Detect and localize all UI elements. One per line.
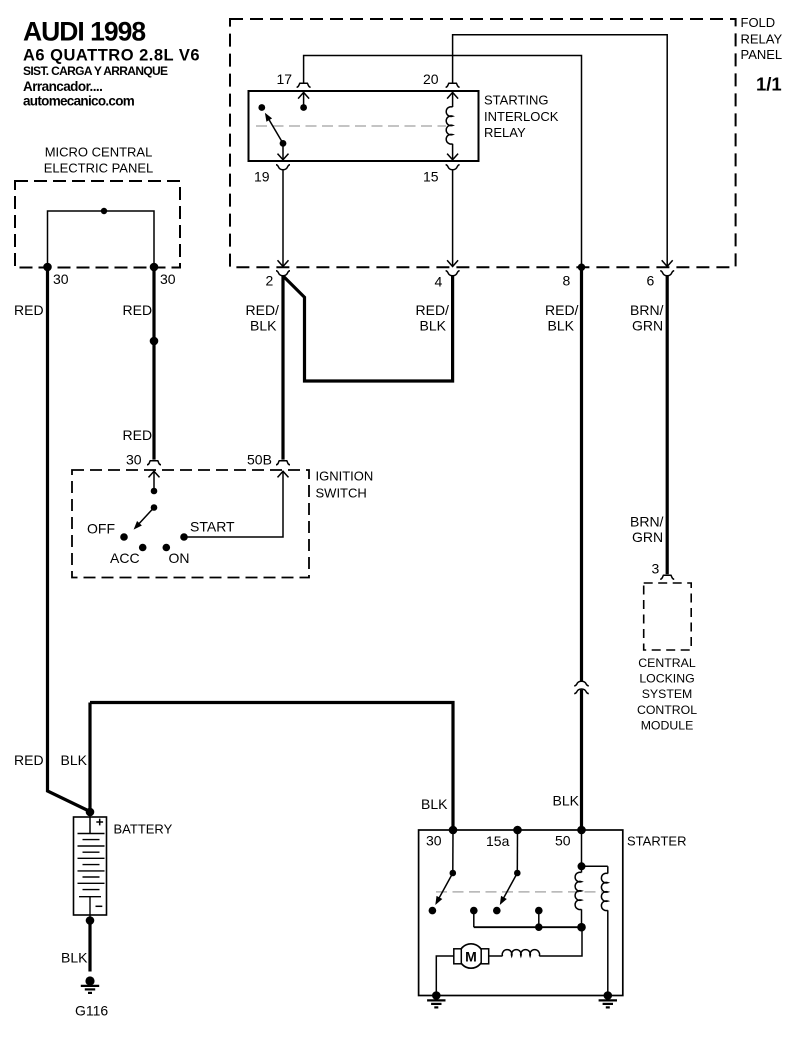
svg-text:G116: G116 xyxy=(75,1003,108,1019)
svg-text:A6 QUATTRO 2.8L V6: A6 QUATTRO 2.8L V6 xyxy=(23,47,200,65)
svg-text:ON: ON xyxy=(169,550,190,566)
svg-text:3: 3 xyxy=(652,561,660,577)
svg-text:50: 50 xyxy=(555,833,571,849)
svg-text:LOCKING: LOCKING xyxy=(639,672,694,686)
svg-text:IGNITION: IGNITION xyxy=(316,469,374,484)
svg-text:ELECTRIC PANEL: ELECTRIC PANEL xyxy=(44,161,154,176)
svg-text:BLK: BLK xyxy=(553,793,580,809)
svg-text:M: M xyxy=(465,948,477,964)
svg-text:Arrancador....: Arrancador.... xyxy=(23,79,102,94)
svg-text:8: 8 xyxy=(563,273,571,289)
svg-text:RED: RED xyxy=(14,752,44,768)
svg-text:FOLD: FOLD xyxy=(741,15,776,30)
svg-text:15: 15 xyxy=(423,169,439,185)
svg-text:BLK: BLK xyxy=(420,318,447,334)
svg-text:15a: 15a xyxy=(486,833,510,849)
svg-text:STARTER: STARTER xyxy=(627,834,686,849)
svg-text:17: 17 xyxy=(277,71,293,87)
svg-text:MODULE: MODULE xyxy=(641,718,694,732)
svg-text:SYSTEM: SYSTEM xyxy=(642,687,693,701)
svg-text:RED: RED xyxy=(123,302,153,318)
svg-text:2: 2 xyxy=(266,273,274,289)
svg-text:GRN: GRN xyxy=(632,318,663,334)
svg-text:RED: RED xyxy=(123,427,153,443)
svg-text:SWITCH: SWITCH xyxy=(316,486,367,501)
svg-text:automecanico.com: automecanico.com xyxy=(23,94,135,109)
svg-text:START: START xyxy=(190,519,235,535)
svg-text:AUDI 1998: AUDI 1998 xyxy=(23,17,145,47)
svg-text:SIST. CARGA Y ARRANQUE: SIST. CARGA Y ARRANQUE xyxy=(23,64,168,78)
svg-text:RED: RED xyxy=(14,302,44,318)
svg-text:RED/: RED/ xyxy=(246,302,280,318)
svg-text:RED/: RED/ xyxy=(545,302,579,318)
svg-text:PANEL: PANEL xyxy=(741,47,783,62)
svg-text:STARTING: STARTING xyxy=(484,93,549,108)
svg-text:BLK: BLK xyxy=(421,796,448,812)
svg-text:OFF: OFF xyxy=(87,521,115,537)
svg-text:BLK: BLK xyxy=(548,318,575,334)
svg-text:INTERLOCK: INTERLOCK xyxy=(484,109,559,124)
svg-text:BATTERY: BATTERY xyxy=(114,822,173,837)
svg-text:CENTRAL: CENTRAL xyxy=(638,656,696,670)
svg-text:BLK: BLK xyxy=(61,752,88,768)
svg-text:30: 30 xyxy=(426,833,442,849)
svg-text:RELAY: RELAY xyxy=(484,125,526,140)
svg-text:MICRO CENTRAL: MICRO CENTRAL xyxy=(45,145,153,160)
svg-text:BRN/: BRN/ xyxy=(630,514,664,530)
svg-text:30: 30 xyxy=(160,271,176,287)
svg-text:1/1: 1/1 xyxy=(756,74,782,95)
svg-text:30: 30 xyxy=(53,271,69,287)
svg-text:GRN: GRN xyxy=(632,529,663,545)
svg-text:4: 4 xyxy=(435,274,443,290)
svg-text:30: 30 xyxy=(126,452,142,468)
svg-text:6: 6 xyxy=(647,273,655,289)
svg-text:RED/: RED/ xyxy=(416,302,450,318)
svg-text:BLK: BLK xyxy=(250,318,277,334)
svg-text:RELAY: RELAY xyxy=(741,32,783,47)
svg-text:CONTROL: CONTROL xyxy=(637,703,697,717)
svg-text:20: 20 xyxy=(423,71,439,87)
svg-text:BRN/: BRN/ xyxy=(630,302,664,318)
svg-text:50B: 50B xyxy=(247,452,272,468)
svg-text:19: 19 xyxy=(254,169,270,185)
svg-text:BLK: BLK xyxy=(61,950,88,966)
svg-text:ACC: ACC xyxy=(110,550,140,566)
